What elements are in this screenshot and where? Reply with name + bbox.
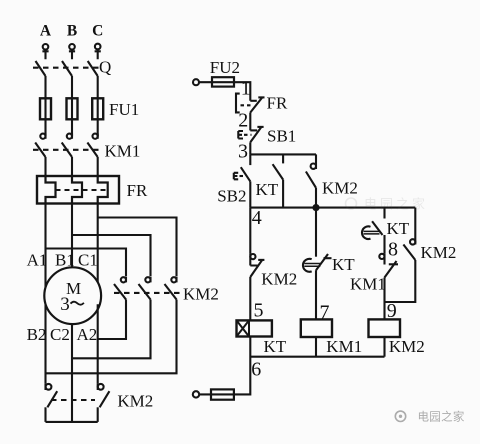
svg-text:C: C — [92, 22, 103, 39]
svg-text:B: B — [67, 22, 77, 39]
svg-text:3: 3 — [238, 141, 248, 163]
svg-text:7: 7 — [320, 302, 330, 324]
svg-text:KM1: KM1 — [326, 337, 362, 356]
svg-text:B1: B1 — [55, 250, 75, 269]
svg-text:A1: A1 — [27, 250, 48, 269]
svg-text:Q: Q — [99, 58, 111, 77]
svg-text:KM2: KM2 — [421, 243, 457, 262]
svg-text:6: 6 — [251, 359, 261, 381]
svg-text:8: 8 — [388, 239, 398, 261]
svg-text:电园之家: 电园之家 — [418, 410, 465, 424]
svg-text:SB2: SB2 — [217, 187, 246, 206]
svg-text:电园之家: 电园之家 — [364, 197, 428, 212]
svg-text:A: A — [40, 22, 52, 39]
svg-text:2: 2 — [238, 110, 248, 132]
svg-text:SB1: SB1 — [267, 127, 296, 146]
svg-text:KM2: KM2 — [261, 270, 297, 289]
svg-text:KT: KT — [332, 255, 355, 274]
svg-text:C2: C2 — [50, 325, 70, 344]
svg-text:1: 1 — [241, 77, 251, 99]
svg-text:4: 4 — [252, 207, 262, 229]
svg-text:KM2: KM2 — [322, 179, 358, 198]
svg-text:FU2: FU2 — [210, 58, 240, 77]
svg-text:KM1: KM1 — [350, 275, 386, 294]
svg-text:FR: FR — [267, 94, 288, 113]
svg-text:C1: C1 — [78, 250, 98, 269]
svg-text:A2: A2 — [77, 325, 98, 344]
svg-text:KM2: KM2 — [389, 337, 425, 356]
svg-text:B2: B2 — [27, 325, 47, 344]
svg-text:3: 3 — [60, 294, 69, 315]
svg-text:FR: FR — [127, 181, 148, 200]
svg-text:KM2: KM2 — [183, 285, 219, 304]
svg-text:9: 9 — [387, 300, 397, 322]
svg-text:KT: KT — [264, 337, 287, 356]
svg-text:KM1: KM1 — [105, 142, 141, 161]
svg-text:5: 5 — [254, 300, 264, 322]
svg-text:KM2: KM2 — [117, 392, 153, 411]
svg-text:KT: KT — [256, 180, 279, 199]
svg-text:FU1: FU1 — [109, 100, 139, 119]
svg-text:KT: KT — [387, 219, 410, 238]
